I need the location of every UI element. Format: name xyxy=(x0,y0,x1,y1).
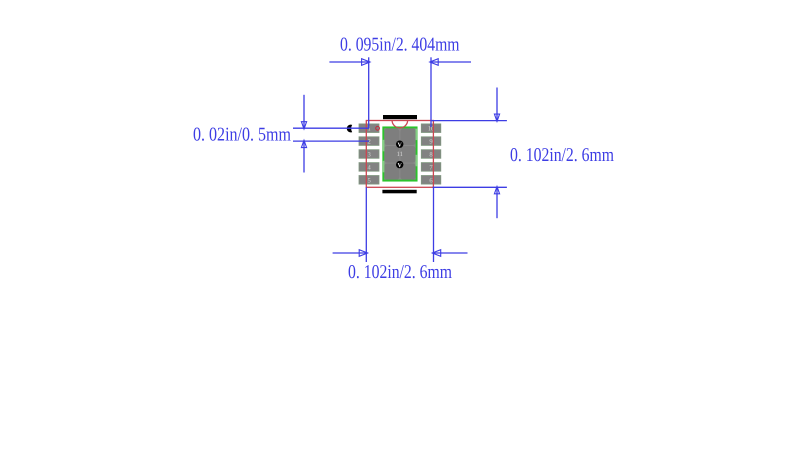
pad number 9 xyxy=(429,139,433,146)
svg-text:2: 2 xyxy=(368,139,371,146)
pad number 5 xyxy=(368,177,372,184)
pad 4 xyxy=(359,163,379,172)
pad 6 xyxy=(421,176,441,185)
pad 8 xyxy=(421,150,441,159)
thermal sub-pad row3 col2 xyxy=(400,164,415,180)
bottom dim left extension line xyxy=(365,187,367,262)
pad number 3 xyxy=(368,152,372,159)
courtyard red rectangle xyxy=(366,121,433,188)
pad number 8 xyxy=(429,152,433,159)
left dim line pad1 xyxy=(293,127,369,129)
pad number 7 xyxy=(429,164,433,171)
pin1 marker red ring xyxy=(376,126,380,130)
pad number 1 xyxy=(368,126,371,133)
right dim text 0.102in/2.6mm xyxy=(510,145,614,166)
svg-text:0. 102in/2. 6mm: 0. 102in/2. 6mm xyxy=(348,262,452,283)
svg-text:V: V xyxy=(398,163,403,169)
thermal via V2 xyxy=(396,161,403,169)
pad number 10 xyxy=(428,126,435,133)
right dim top line xyxy=(432,120,507,122)
bottom dim text 0.102in/2.6mm xyxy=(348,262,452,283)
pale green dash left upper xyxy=(382,140,384,152)
pale green dash right upper xyxy=(416,129,418,141)
left dim text 0.02in/0.5mm xyxy=(193,125,291,146)
top dim right extension line xyxy=(430,57,432,127)
right dim lower arrow xyxy=(494,187,499,219)
svg-text:0. 102in/2. 6mm: 0. 102in/2. 6mm xyxy=(510,145,614,166)
pad 1 (left, top) xyxy=(359,124,379,133)
svg-text:0. 02in/0. 5mm: 0. 02in/0. 5mm xyxy=(193,125,291,146)
top dim left extension line xyxy=(368,57,370,128)
right dim upper arrow xyxy=(494,88,499,122)
bottom dim right arrow line xyxy=(432,250,467,257)
left dim lower arrow xyxy=(301,140,306,172)
pad number 6 xyxy=(429,177,433,184)
pad 2 xyxy=(359,137,379,146)
pad 10 (right, top) xyxy=(421,124,441,133)
silkscreen top bar xyxy=(383,115,417,119)
exposed pad green outline xyxy=(383,127,416,180)
svg-text:11: 11 xyxy=(397,151,403,158)
thermal sub-pad row3 col1 xyxy=(384,164,399,180)
svg-text:0. 095in/2. 404mm: 0. 095in/2. 404mm xyxy=(340,34,460,55)
right dim bottom line xyxy=(433,186,507,188)
svg-text:V: V xyxy=(398,142,403,148)
left dim upper arrow xyxy=(301,95,306,129)
pad number 11 (exposed pad) xyxy=(397,151,403,158)
pad 3 xyxy=(359,150,379,159)
top dim left arrow line xyxy=(329,59,370,66)
silkscreen pin1 crescent marker xyxy=(347,125,352,133)
bottom dim left arrow line xyxy=(333,250,368,257)
left dim line pad2 xyxy=(293,140,369,142)
bottom dim right extension line xyxy=(433,187,435,262)
thermal sub-pad row2 col2 xyxy=(400,146,415,163)
pale green dash right lower xyxy=(416,155,418,167)
pad number 2 xyxy=(368,139,371,146)
fab layer pin1 arc (red semicircle) xyxy=(392,121,408,128)
thermal sub-pad row2 col1 xyxy=(384,146,399,163)
thermal via V1 xyxy=(396,141,403,149)
pad 9 xyxy=(421,137,441,146)
pad 7 xyxy=(421,163,441,172)
pad number 4 xyxy=(368,164,372,171)
top dim right arrow line xyxy=(430,59,471,66)
thermal sub-pad row1 col1 xyxy=(384,128,399,145)
silkscreen bottom bar xyxy=(382,190,416,194)
thermal sub-pad row1 col2 xyxy=(400,128,415,145)
top dim text 0.095in/2.404mm xyxy=(340,34,460,55)
pad 5 xyxy=(359,176,379,185)
exposed thermal pad base xyxy=(384,128,416,180)
pale green dash left lower xyxy=(382,161,384,173)
